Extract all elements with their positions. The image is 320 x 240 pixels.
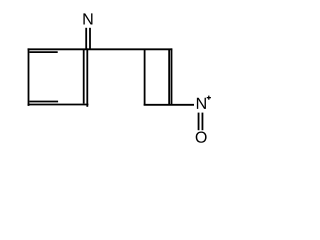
wire left ring right edge double bond outer line (86, 48, 88, 106)
wire N+=O double bond right line (201, 113, 203, 131)
wire C=N imine double bond left line (85, 28, 87, 49)
wire left ring bottom edge single bond (28, 104, 89, 106)
wire top bond C1-C6 across both rings (28, 48, 173, 50)
wire left ring right edge double bond inner line (83, 49, 85, 103)
atom label N+ (nitro nitrogen) (197, 98, 206, 109)
atom label N (imine nitrogen) (83, 13, 92, 24)
charge plus sign on N+ (207, 96, 211, 100)
wire right ring right edge double bond inner line (168, 50, 170, 105)
wire right ring left edge single bond (144, 49, 146, 106)
wire left ring bottom-left double bond inner line (30, 101, 59, 103)
wire right ring bottom edge and C-N+ bond (144, 104, 194, 106)
wire left ring left edge single bond (28, 48, 30, 106)
wire N+=O double bond left line (198, 113, 200, 131)
atom label O (nitro oxygen) (196, 131, 207, 142)
wire right ring right edge double bond outer line (171, 48, 173, 105)
wire left ring top-left double bond inner line (30, 51, 58, 53)
wire C=N imine double bond right line (89, 28, 91, 49)
